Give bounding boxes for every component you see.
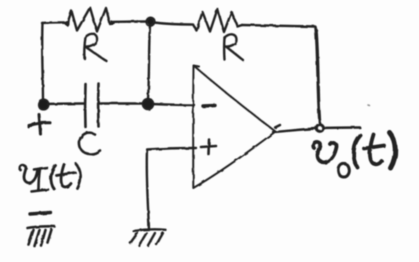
op-amp non-inverting input plus sign <box>201 140 216 155</box>
capacitor C right plate <box>97 84 100 127</box>
label vI(t) script v <box>20 164 81 192</box>
node A junction dot <box>147 18 153 24</box>
label vo(t) t <box>370 135 382 165</box>
resistor R1 zigzag <box>63 8 114 32</box>
op-amp U1 triangle <box>193 66 275 189</box>
ground G2 <box>130 229 165 245</box>
wire R1 to node A <box>112 20 147 23</box>
wire non-inverting input horizontal <box>147 148 196 150</box>
stray faint dot <box>368 104 370 107</box>
label vo(t) open paren <box>354 136 361 168</box>
node C junction dot <box>143 99 154 110</box>
wire node A to resistor R2 <box>154 23 192 25</box>
op-amp inverting input minus sign <box>203 104 215 108</box>
wire R2 to top-right corner <box>242 25 315 27</box>
source minus sign <box>30 213 51 215</box>
output pen tick at apex <box>275 125 280 128</box>
label vI(t) t <box>61 165 71 187</box>
label vI(t) subscript I <box>34 168 47 170</box>
wire node B to capacitor <box>48 102 84 105</box>
capacitor C left plate <box>84 84 87 127</box>
wire inverting input <box>152 104 194 105</box>
wire capacitor to node C <box>100 102 144 104</box>
node B input junction dot <box>38 99 48 109</box>
label vI(t) open paren <box>51 166 56 190</box>
wire left vertical <box>41 23 44 102</box>
wire node A to node C vertical <box>148 25 150 99</box>
wire non-inverting vertical to ground <box>147 150 149 229</box>
label vo(t) subscript o <box>338 163 349 177</box>
resistor R2 value label R <box>224 34 243 60</box>
capacitor C value label <box>79 133 100 154</box>
label vo(t) close paren <box>390 133 396 169</box>
wire top-left horizontal segment <box>42 21 64 24</box>
label vo(t) script v <box>313 133 395 178</box>
label vI(t) close paren <box>76 164 81 189</box>
source plus sign <box>29 115 50 135</box>
ground G1 <box>28 226 55 246</box>
resistor R2 zigzag <box>193 9 242 32</box>
output node (open circle) <box>316 125 323 132</box>
wire op-amp output to node and right <box>273 129 315 133</box>
resistor R1 value label R <box>84 34 107 62</box>
wire right vertical (feedback to output) <box>316 27 320 123</box>
